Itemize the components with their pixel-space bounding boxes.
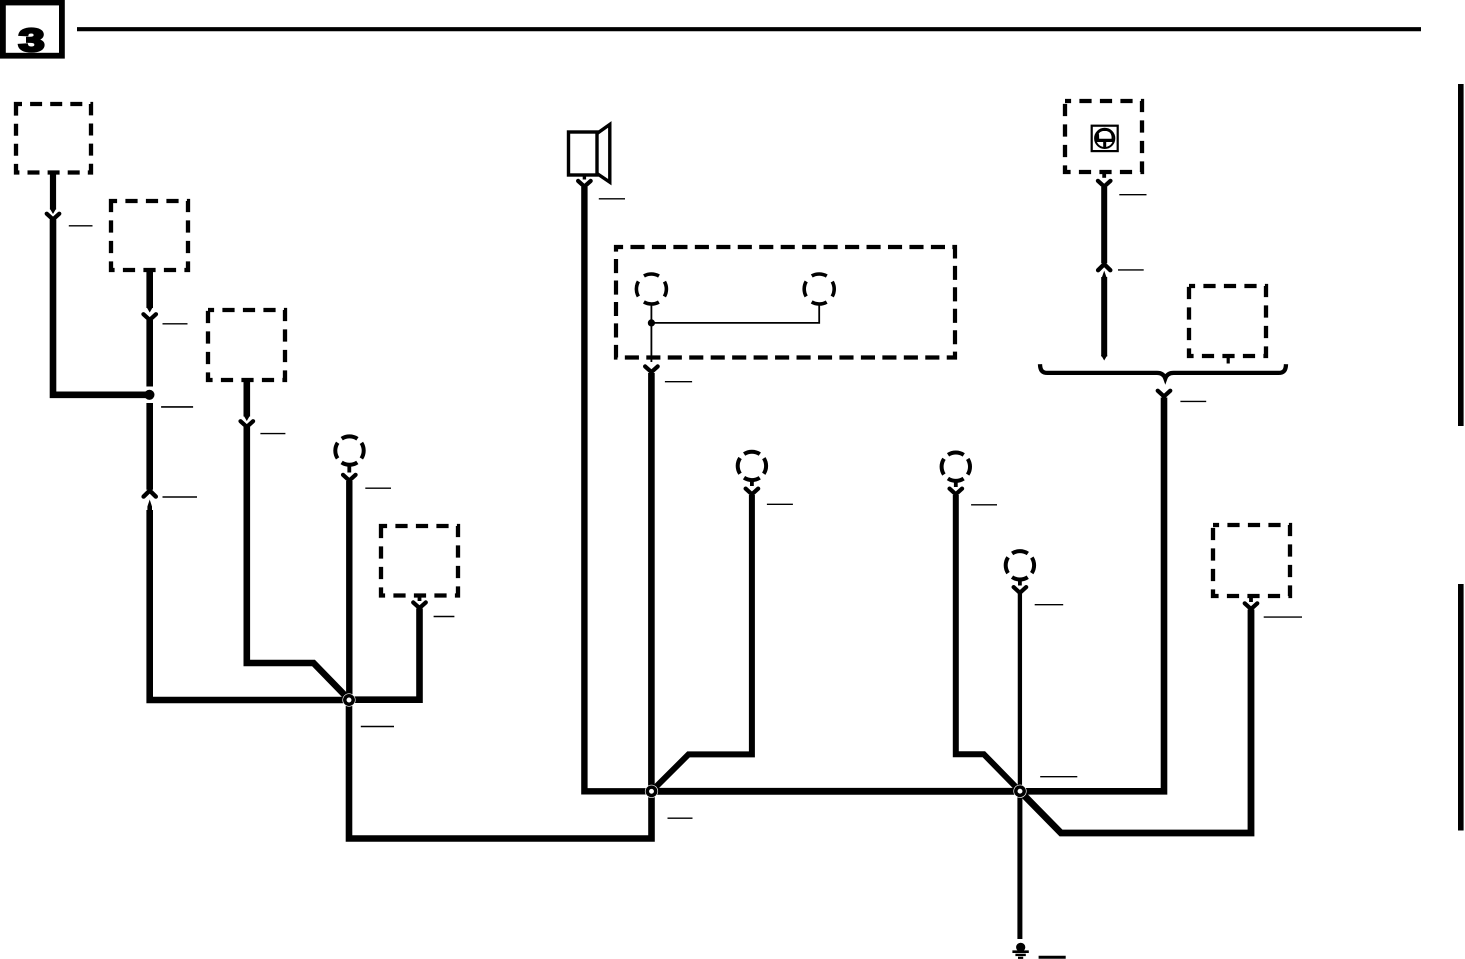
label wire C3: [971, 504, 997, 506]
arrow below X8: [1249, 596, 1253, 602]
wire horn button down to brace (upper segment): [1101, 187, 1107, 263]
label wire X5: [434, 616, 455, 618]
label wire X3: [260, 433, 285, 435]
arrow below C1: [347, 464, 351, 473]
arrow below speaker: [583, 175, 586, 180]
label at junction J1: [361, 726, 394, 728]
wire C3 branch: down, right, diagonal into J3: [956, 495, 1020, 791]
wire from relay: down through J2: [648, 373, 655, 791]
arrow on wire X2 (down): [147, 307, 153, 313]
junction J0 (solid dot): [144, 390, 154, 400]
label wire C4: [1035, 604, 1064, 606]
junction J1 (open ring): [342, 693, 355, 706]
wire from X1: down then right to junction J0: [50, 172, 56, 210]
connector X2 (dashed box): [111, 201, 188, 270]
arrow below brace: [1158, 391, 1171, 397]
label at ground: [1039, 956, 1066, 959]
wire X8 branch: diagonal from J3 down-right, right, up to X8: [1020, 610, 1251, 834]
wire J1 to J2 (down, right along bottom, up): [349, 700, 652, 839]
arrow on wire X2 (up): [144, 491, 156, 497]
steering-wheel icon inside horn button box: [1092, 126, 1118, 151]
horn button module (dashed box, top-right): [1065, 101, 1142, 172]
arrow below C3: [954, 481, 958, 488]
label at junction J0: [161, 406, 193, 408]
label brace wire: [1180, 400, 1206, 402]
right margin bar (lower): [1458, 584, 1464, 831]
top horizontal rule: [77, 27, 1421, 31]
wire C2 branch: diagonal from J2 up-right then to circle C2: [652, 495, 752, 791]
dashed connector circle C1 (left): [335, 436, 363, 464]
label wire X2 lower: [163, 496, 198, 498]
relay internal wire to box exit: [650, 323, 652, 362]
arrow on wire X1: [50, 209, 56, 215]
wire from X5: down then left to J1: [349, 609, 420, 700]
label wire X2 upper: [163, 323, 188, 325]
connector X1 (dashed box, top-left): [16, 104, 91, 173]
label at junction J2: [668, 817, 693, 819]
connector X3 (dashed box): [208, 310, 285, 380]
junction J2 (open ring): [645, 785, 658, 798]
dashed connector circle C3: [942, 453, 970, 481]
label relay wire: [665, 381, 692, 383]
label at junction J3: [1040, 776, 1077, 778]
wire from X3: down, right, diagonal to J1: [244, 380, 251, 417]
relay pin circle P2: [804, 274, 834, 304]
wire from speaker: down then right to J2: [584, 187, 651, 792]
wire from C1 down to J1: [346, 481, 352, 700]
arrow below horn button box: [1102, 172, 1106, 178]
connector X8 (dashed box, bottom-right): [1213, 525, 1290, 596]
connector X5 (dashed box, mid-left): [381, 526, 458, 596]
arrow below C4: [1018, 579, 1022, 586]
wire horn button down to brace (lower segment): [1101, 277, 1107, 357]
arrow below relay box: [645, 366, 658, 372]
wire C4 to ground through J3: [1018, 594, 1022, 792]
relay internal junction dot: [648, 319, 655, 326]
label wire C1: [365, 487, 391, 489]
main wire J3 to riser, up to brace arrow: [1020, 398, 1164, 792]
relay pin circle P1: [636, 274, 666, 304]
label horn wire lower: [1118, 269, 1144, 271]
label wire X1: [69, 225, 93, 227]
mid-wire arrow (up) on horn button wire: [1098, 264, 1110, 270]
arrow below C2: [750, 480, 754, 487]
svg-text:3: 3: [19, 22, 45, 58]
dashed connector circle C2 (center): [738, 452, 766, 480]
brace (harness bundle): [1040, 364, 1286, 378]
horn relay box (large dashed box): [616, 247, 955, 358]
junction J3 (open ring): [1013, 785, 1026, 798]
wire from X2: down through J0 to bottom-left corner then right to J1: [146, 270, 153, 308]
label wire X8: [1264, 616, 1302, 618]
label speaker wire: [599, 198, 625, 200]
ground symbol: [1012, 943, 1028, 958]
arrow below X5: [418, 596, 422, 602]
connector X7 (dashed box above brace, right): [1189, 286, 1266, 356]
relay internal wire P1 to P2: [651, 306, 819, 323]
arrow on wire X3: [244, 416, 250, 422]
dashed connector circle C4: [1006, 551, 1034, 579]
main wire J2 to J3: [652, 788, 1021, 795]
label wire C2: [767, 503, 793, 505]
label horn wire upper: [1119, 194, 1146, 196]
sheet number box "3": [3, 3, 62, 59]
tick from X7 to brace: [1227, 354, 1230, 364]
speaker / horn symbol: [569, 124, 610, 182]
right margin bar (upper): [1458, 84, 1464, 426]
